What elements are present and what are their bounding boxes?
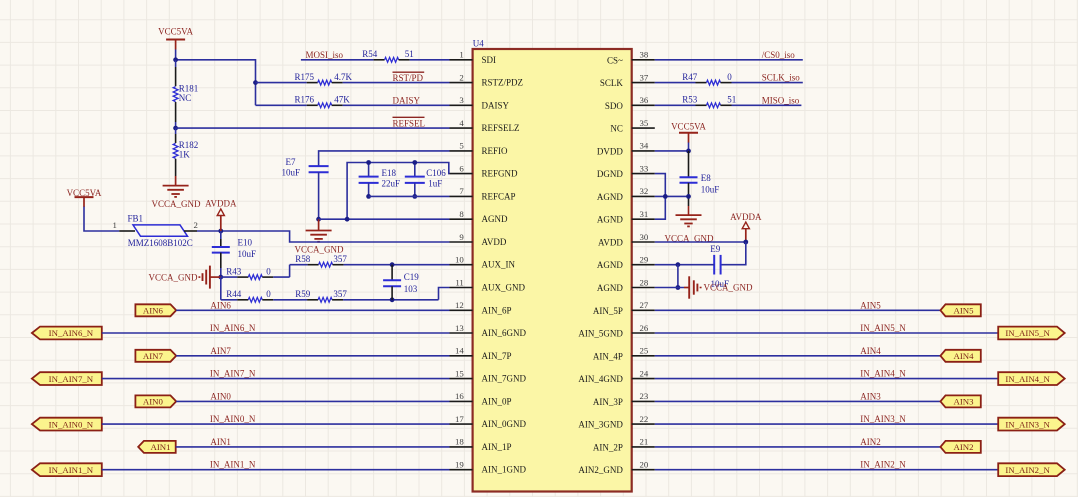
wire E10 to R44 corner	[220, 277, 222, 300]
svg-text:IN_AIN0_N: IN_AIN0_N	[49, 419, 94, 429]
port AIN6	[135, 304, 176, 316]
svg-text:REFSEL: REFSEL	[393, 119, 426, 129]
pin 17 AIN_0GND (stub)	[450, 423, 473, 425]
port IN_AIN3_N	[998, 418, 1064, 431]
svg-text:AIN_7GND: AIN_7GND	[482, 374, 527, 384]
pin 3 DAISY (stub)	[450, 104, 473, 106]
svg-text:AIN1: AIN1	[210, 437, 231, 447]
pin 28 AGND (stub)	[632, 287, 655, 289]
svg-text:R182: R182	[179, 140, 199, 150]
svg-text:AVDD: AVDD	[482, 237, 507, 247]
port AIN7	[135, 350, 176, 362]
svg-text:AIN_1P: AIN_1P	[482, 442, 512, 452]
svg-text:VCC5VA: VCC5VA	[671, 122, 706, 132]
pin 4 REFSELZ (stub)	[450, 127, 473, 129]
svg-text:357: 357	[333, 289, 347, 299]
pin 18 AIN_1P (stub)	[450, 446, 473, 448]
node junction VCC5VA top	[173, 57, 178, 62]
ground VCCA_GND (below E7)	[318, 219, 320, 230]
svg-text:37: 37	[640, 72, 649, 82]
pin 27 AIN_5P (stub)	[632, 309, 655, 311]
svg-text:MMZ1608B102C: MMZ1608B102C	[128, 238, 193, 248]
svg-text:R43: R43	[226, 266, 242, 276]
svg-text:IN_AIN0_N: IN_AIN0_N	[210, 414, 256, 424]
capacitor E8 10uF	[688, 151, 690, 177]
svg-text:IN_AIN6_N: IN_AIN6_N	[49, 328, 94, 338]
node junction C19 top	[390, 262, 395, 267]
svg-text:AGND: AGND	[482, 214, 508, 224]
svg-text:AIN3: AIN3	[953, 397, 974, 407]
svg-text:33: 33	[640, 163, 649, 173]
svg-text:IN_AIN3_N: IN_AIN3_N	[860, 414, 906, 424]
wire AIN7 (pin 14)	[176, 355, 449, 357]
node junction bracket/pin32	[663, 194, 668, 199]
svg-text:AIN1: AIN1	[150, 442, 170, 452]
svg-text:U4: U4	[473, 39, 484, 49]
svg-text:IN_AIN5_N: IN_AIN5_N	[860, 323, 906, 333]
wire AIN3 (pin 23)	[655, 400, 941, 402]
wire IN_AIN6_N (pin 13)	[102, 332, 450, 334]
node junction AVDDA tap	[218, 229, 223, 234]
pin 21 AIN_2P (stub)	[632, 446, 655, 448]
svg-text:357: 357	[333, 254, 347, 264]
port AIN1	[138, 441, 176, 453]
wire / resistor R53 51 (pin 36)	[655, 104, 696, 106]
svg-text:R44: R44	[226, 289, 242, 299]
wire AGND (pin 8)	[319, 218, 450, 220]
pin 23 AIN_3P (stub)	[632, 400, 655, 402]
wire IN_AIN7_N (pin 15)	[102, 378, 450, 380]
svg-text:AIN7: AIN7	[143, 351, 164, 361]
svg-text:R47: R47	[682, 72, 698, 82]
svg-text:REFIO: REFIO	[482, 146, 509, 156]
pin 22 AIN_3GND (stub)	[632, 423, 655, 425]
svg-text:SCLK: SCLK	[600, 78, 624, 88]
wire R43 to R58 row	[289, 265, 291, 277]
svg-text:22uF: 22uF	[382, 179, 401, 189]
pin 36 SDO (stub)	[632, 104, 655, 106]
svg-text:4.7K: 4.7K	[334, 72, 352, 82]
svg-text:E7: E7	[286, 157, 296, 167]
svg-text:IN_AIN1_N: IN_AIN1_N	[210, 460, 256, 470]
pin 32 AGND (stub)	[632, 195, 655, 197]
svg-text:15: 15	[455, 368, 464, 378]
svg-text:RST/PD: RST/PD	[393, 73, 424, 83]
svg-text:10uF: 10uF	[282, 168, 301, 178]
node junction R175 branch	[253, 80, 258, 85]
svg-text:1: 1	[113, 220, 117, 230]
svg-text:AIN_3GND: AIN_3GND	[578, 420, 623, 430]
pin 2 RSTZ/PDZ (stub)	[450, 82, 473, 84]
svg-text:AIN5: AIN5	[860, 300, 881, 310]
svg-text:VCCA_GND: VCCA_GND	[294, 244, 344, 254]
svg-text:IN_AIN2_N: IN_AIN2_N	[1005, 465, 1050, 475]
svg-text:32: 32	[640, 186, 649, 196]
svg-text:3: 3	[459, 95, 464, 105]
wire VCC5VA to DVDD (pin 34)	[688, 143, 690, 151]
svg-text:17: 17	[455, 414, 464, 424]
node junction E18 bottom	[366, 194, 371, 199]
ground VCCA_GND (below E8)	[676, 214, 702, 216]
pin 1 SDI (stub)	[450, 59, 473, 61]
svg-text:28: 28	[640, 277, 649, 287]
svg-text:IN_AIN5_N: IN_AIN5_N	[1005, 328, 1050, 338]
svg-text:R59: R59	[295, 289, 311, 299]
svg-text:REFCAP: REFCAP	[482, 191, 516, 201]
svg-text:AUX_GND: AUX_GND	[482, 283, 526, 293]
pin 25 AIN_4P (stub)	[632, 355, 655, 357]
svg-text:AIN5: AIN5	[953, 306, 974, 316]
wire / resistor R47 0 (pin 37)	[655, 82, 696, 84]
svg-text:R176: R176	[295, 95, 315, 105]
svg-text:AUX_IN: AUX_IN	[482, 260, 516, 270]
svg-text:AIN7: AIN7	[210, 346, 231, 356]
port IN_AIN4_N	[998, 372, 1064, 385]
resistor R181 (NC)	[175, 60, 177, 67]
svg-text:19: 19	[455, 460, 464, 470]
wire IN_AIN3_N (pin 22)	[655, 423, 998, 425]
pin 26 AIN_5GND (stub)	[632, 332, 655, 334]
capacitor E9 10uF	[713, 255, 715, 275]
svg-text:31: 31	[640, 209, 649, 219]
wire DGND/AGND bracket (pins 33,32,31)	[655, 174, 666, 220]
wire AVDD (pin 30)	[655, 241, 746, 243]
svg-text:R53: R53	[682, 95, 698, 105]
svg-text:AGND: AGND	[597, 283, 623, 293]
svg-text:R54: R54	[362, 49, 378, 59]
svg-text:R175: R175	[295, 72, 315, 82]
wire IN_AIN2_N (pin 20)	[655, 469, 998, 471]
svg-text:0: 0	[266, 289, 271, 299]
svg-text:AGND: AGND	[597, 192, 623, 202]
node junction C106 bottom	[412, 194, 417, 199]
wire / resistor R176 47K (pin 3)	[256, 104, 307, 106]
capacitor C19 103	[391, 265, 393, 281]
node junction E7/AGND	[316, 217, 321, 222]
svg-text:SDO: SDO	[605, 101, 624, 111]
pin 16 AIN_0P (stub)	[450, 400, 473, 402]
node junction E10/R43/ground	[218, 275, 223, 280]
svg-text:2: 2	[459, 72, 463, 82]
svg-text:AIN6: AIN6	[143, 306, 164, 316]
wire FB1 to AVDD corner	[197, 231, 450, 242]
capacitor E18 22uF	[368, 163, 370, 177]
pin 37 SCLK (stub)	[632, 82, 655, 84]
svg-text:C106: C106	[426, 168, 446, 178]
wire AGND (pin 28)	[655, 287, 684, 289]
svg-text:AIN_7P: AIN_7P	[482, 351, 512, 361]
wire VCC5VA to FB1	[84, 207, 119, 231]
svg-text:SDI: SDI	[482, 55, 497, 65]
svg-text:AIN_4P: AIN_4P	[593, 351, 623, 361]
wire AGND pin 29 to E9	[655, 264, 714, 266]
port IN_AIN7_N	[32, 372, 102, 385]
svg-text:AIN0: AIN0	[210, 391, 231, 401]
svg-text:DAISY: DAISY	[482, 100, 510, 110]
wire CS~ (pin 38)	[655, 59, 803, 61]
wire AIN2 (pin 21)	[655, 446, 941, 448]
wire R43 row / resistor R43 0	[221, 276, 238, 278]
svg-text:AIN_3P: AIN_3P	[593, 397, 623, 407]
pin 12 AIN_6P (stub)	[450, 309, 473, 311]
ferrite bead FB1 MMZ1608B102C	[119, 230, 135, 232]
wire AIN1 (pin 18)	[176, 446, 450, 448]
wire AGND pin 32 to E8	[655, 195, 689, 197]
wire IN_AIN0_N (pin 17)	[102, 423, 450, 425]
svg-text:REFSELZ: REFSELZ	[482, 123, 520, 133]
node junction E18 top	[366, 160, 371, 165]
svg-text:MOSI_iso: MOSI_iso	[306, 50, 344, 60]
svg-text:AIN_5P: AIN_5P	[593, 306, 623, 316]
svg-text:12: 12	[455, 300, 464, 310]
wire IN_AIN5_N (pin 26)	[655, 332, 998, 334]
svg-text:38: 38	[640, 50, 649, 60]
svg-text:AIN_4GND: AIN_4GND	[578, 374, 623, 384]
svg-text:AGND: AGND	[597, 215, 623, 225]
wire R44-R59 segment / resistor R59 357	[302, 299, 307, 301]
svg-text:11: 11	[455, 277, 463, 287]
pin 9 AVDD (stub)	[450, 241, 473, 243]
svg-text:VCCA_GND: VCCA_GND	[151, 199, 201, 209]
svg-text:AIN2: AIN2	[953, 442, 973, 452]
port AIN3	[940, 395, 980, 407]
wire AVDDA down to E9	[721, 242, 746, 265]
pin 7 REFCAP (stub)	[450, 195, 473, 197]
svg-text:AIN_1GND: AIN_1GND	[482, 465, 527, 475]
pin 35 NC (stub)	[632, 127, 655, 129]
svg-text:DVDD: DVDD	[597, 146, 623, 156]
svg-text:FB1: FB1	[128, 214, 144, 224]
svg-text:AIN6: AIN6	[210, 300, 231, 310]
svg-text:5: 5	[459, 141, 464, 151]
svg-text:16: 16	[455, 391, 464, 401]
svg-text:CS~: CS~	[607, 55, 623, 65]
svg-text:51: 51	[727, 95, 736, 105]
svg-text:VCCA_GND: VCCA_GND	[148, 272, 198, 282]
ground VCCA_GND (below R182)	[163, 185, 189, 187]
wire E7 bottom to AGND rail	[318, 172, 320, 219]
svg-text:8: 8	[459, 209, 464, 219]
pin 33 DGND (stub)	[632, 173, 655, 175]
svg-text:AVDDA: AVDDA	[205, 198, 237, 208]
wire / resistor R175 4.7K (pin 2)	[256, 82, 307, 84]
svg-text:1uF: 1uF	[428, 179, 442, 189]
capacitor E10 10uF	[220, 231, 222, 239]
wire pin29 down to pin28	[677, 265, 679, 288]
svg-text:103: 103	[404, 284, 418, 294]
node junction REFSEL branch	[173, 126, 178, 131]
capacitor E7 10uF	[309, 165, 329, 167]
svg-text:AGND: AGND	[597, 260, 623, 270]
wire REFGND rail (pin 6)	[347, 163, 449, 220]
svg-text:34: 34	[640, 141, 649, 151]
svg-text:NC: NC	[179, 93, 192, 103]
wire VCC5VA junction to corner	[176, 60, 256, 106]
op-amp U4 body	[473, 49, 632, 492]
svg-text:0: 0	[727, 72, 732, 82]
ground VCCA_GND (bar style, right)	[684, 287, 689, 289]
svg-text:13: 13	[455, 323, 464, 333]
svg-text:AIN_6GND: AIN_6GND	[482, 328, 527, 338]
wire IN_AIN1_N (pin 19)	[102, 469, 450, 471]
wire AUX_IN / resistor R58 357 (pin 10)	[290, 264, 308, 266]
svg-text:29: 29	[640, 255, 649, 265]
wire AIN0 (pin 16)	[176, 400, 449, 402]
node junction C106 top	[412, 160, 417, 165]
svg-text:2: 2	[194, 220, 198, 230]
wire IN_AIN4_N (pin 24)	[655, 378, 998, 380]
svg-text:14: 14	[455, 346, 464, 356]
pin 8 AGND (stub)	[450, 218, 473, 220]
svg-text:AIN_0P: AIN_0P	[482, 396, 512, 406]
svg-text:R181: R181	[179, 83, 199, 93]
svg-text:22: 22	[640, 414, 649, 424]
svg-text:27: 27	[640, 300, 649, 310]
port IN_AIN5_N	[998, 327, 1064, 340]
svg-text:10uF: 10uF	[701, 185, 720, 195]
svg-text:23: 23	[640, 391, 649, 401]
capacitor C106 1uF	[414, 163, 416, 177]
svg-text:RSTZ/PDZ: RSTZ/PDZ	[482, 78, 524, 88]
svg-text:36: 36	[640, 95, 649, 105]
svg-text:IN_AIN4_N: IN_AIN4_N	[860, 369, 906, 379]
svg-text:AIN4: AIN4	[860, 346, 881, 356]
wire R44 row / resistor R44 0	[221, 299, 238, 301]
svg-text:30: 30	[640, 232, 649, 242]
node junction C19 bottom	[390, 297, 395, 302]
pin 30 AVDD (stub)	[632, 241, 655, 243]
wire AIN4 (pin 25)	[655, 355, 941, 357]
pin 5 REFIO (stub)	[450, 150, 473, 152]
svg-text:18: 18	[455, 437, 464, 447]
svg-text:MISO_iso: MISO_iso	[762, 95, 800, 105]
svg-text:25: 25	[640, 346, 649, 356]
node junction pin28	[676, 285, 681, 290]
svg-text:C19: C19	[404, 272, 420, 282]
svg-text:6: 6	[459, 163, 464, 173]
svg-text:AIN3: AIN3	[860, 391, 881, 401]
pin 14 AIN_7P (stub)	[450, 355, 473, 357]
svg-text:9: 9	[459, 232, 464, 242]
svg-text:1: 1	[459, 50, 463, 60]
svg-text:IN_AIN1_N: IN_AIN1_N	[49, 465, 94, 475]
svg-text:REFGND: REFGND	[482, 169, 519, 179]
wire VCC5VA stem to junction	[175, 50, 177, 60]
node junction pin29	[676, 262, 681, 267]
pin 11 AUX_GND (stub)	[450, 287, 473, 289]
svg-text:VCC5VA: VCC5VA	[158, 27, 193, 37]
svg-text:IN_AIN3_N: IN_AIN3_N	[1005, 419, 1050, 429]
pin 15 AIN_7GND (stub)	[450, 378, 473, 380]
svg-text:DGND: DGND	[597, 169, 623, 179]
svg-text:/CS0_iso: /CS0_iso	[762, 50, 796, 60]
svg-text:SCLK_iso: SCLK_iso	[762, 73, 801, 83]
pin 31 AGND (stub)	[632, 218, 655, 220]
wire AIN6 (pin 12)	[176, 309, 449, 311]
svg-text:AIN2_GND: AIN2_GND	[578, 465, 623, 475]
pin 24 AIN_4GND (stub)	[632, 378, 655, 380]
node junction AVDD/AVDDA	[743, 240, 748, 245]
pin 20 AIN2_GND (stub)	[632, 469, 655, 471]
node junction DVDD	[686, 149, 691, 154]
port IN_AIN6_N	[32, 327, 102, 340]
svg-text:35: 35	[640, 118, 649, 128]
svg-text:E18: E18	[382, 168, 397, 178]
wire REFSEL (pin 4)	[176, 127, 450, 129]
svg-text:AVDD: AVDD	[598, 238, 623, 248]
svg-text:AIN_0GND: AIN_0GND	[482, 419, 527, 429]
svg-text:VCCA_GND: VCCA_GND	[704, 283, 754, 293]
svg-text:7: 7	[459, 186, 464, 196]
svg-text:IN_AIN6_N: IN_AIN6_N	[210, 323, 256, 333]
port AIN2	[940, 441, 980, 453]
svg-text:4: 4	[459, 118, 464, 128]
svg-text:47K: 47K	[334, 95, 350, 105]
svg-text:AIN4: AIN4	[953, 351, 974, 361]
port AIN0	[135, 395, 176, 407]
svg-text:E8: E8	[701, 173, 711, 183]
svg-text:NC: NC	[610, 124, 623, 134]
svg-text:10uF: 10uF	[238, 249, 257, 259]
svg-text:AIN_6P: AIN_6P	[482, 305, 512, 315]
node junction E8/pin32	[686, 194, 691, 199]
pin 38 CS~ (stub)	[632, 59, 655, 61]
svg-text:21: 21	[640, 437, 649, 447]
pin 19 AIN_1GND (stub)	[450, 469, 473, 471]
wire AIN5 (pin 27)	[655, 309, 941, 311]
svg-text:AVDDA: AVDDA	[730, 212, 762, 222]
svg-text:10: 10	[455, 255, 464, 265]
svg-text:DAISY: DAISY	[393, 96, 421, 106]
port AIN5	[940, 304, 980, 316]
svg-text:IN_AIN2_N: IN_AIN2_N	[860, 460, 906, 470]
svg-text:E9: E9	[710, 244, 720, 254]
port IN_AIN2_N	[998, 463, 1064, 476]
svg-text:1K: 1K	[179, 150, 191, 160]
pin 29 AGND (stub)	[632, 264, 655, 266]
ground VCCA_GND (bar style, left)	[210, 276, 221, 278]
svg-text:26: 26	[640, 323, 649, 333]
svg-text:IN_AIN4_N: IN_AIN4_N	[1005, 374, 1050, 384]
svg-text:AIN_2P: AIN_2P	[593, 442, 623, 452]
node junction rail/AGND	[345, 217, 350, 222]
svg-text:R58: R58	[295, 254, 311, 264]
resistor R182 (1K)	[175, 128, 177, 134]
wire MOSI_iso / resistor R54 51 (pin 1)	[301, 59, 374, 61]
svg-text:AIN_5GND: AIN_5GND	[578, 329, 623, 339]
svg-text:AIN0: AIN0	[143, 397, 164, 407]
pin 34 DVDD (stub)	[632, 150, 655, 152]
wire REFIO (pin 5)	[319, 151, 450, 166]
pin 13 AIN_6GND (stub)	[450, 332, 473, 334]
svg-text:E10: E10	[238, 237, 253, 247]
svg-text:0: 0	[266, 266, 271, 276]
port AIN4	[940, 350, 980, 362]
svg-text:IN_AIN7_N: IN_AIN7_N	[49, 374, 94, 384]
pin 10 AUX_IN (stub)	[450, 264, 473, 266]
port IN_AIN0_N	[32, 418, 102, 431]
pin 6 REFGND (stub)	[450, 173, 473, 175]
svg-text:20: 20	[640, 460, 649, 470]
svg-text:24: 24	[640, 368, 649, 378]
svg-text:AIN2: AIN2	[860, 437, 881, 447]
port IN_AIN1_N	[32, 463, 102, 476]
svg-text:51: 51	[405, 49, 414, 59]
svg-text:IN_AIN7_N: IN_AIN7_N	[210, 369, 256, 379]
wire REFCAP (pin 7)	[369, 195, 450, 197]
wire to AUX_GND (pin 11)	[439, 288, 450, 300]
